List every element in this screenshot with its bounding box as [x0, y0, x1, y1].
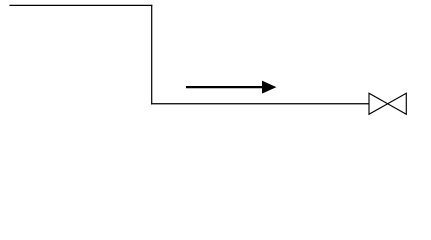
pipe segment: bottom horizontal line to valve [151, 103, 369, 105]
flow arrow: head [262, 81, 276, 94]
pipe segment: top horizontal line [9, 4, 152, 6]
flow arrow: shaft [186, 86, 264, 88]
pipe segment: vertical drop [151, 5, 153, 105]
valve V1 (bowtie symbol) [369, 93, 406, 114]
